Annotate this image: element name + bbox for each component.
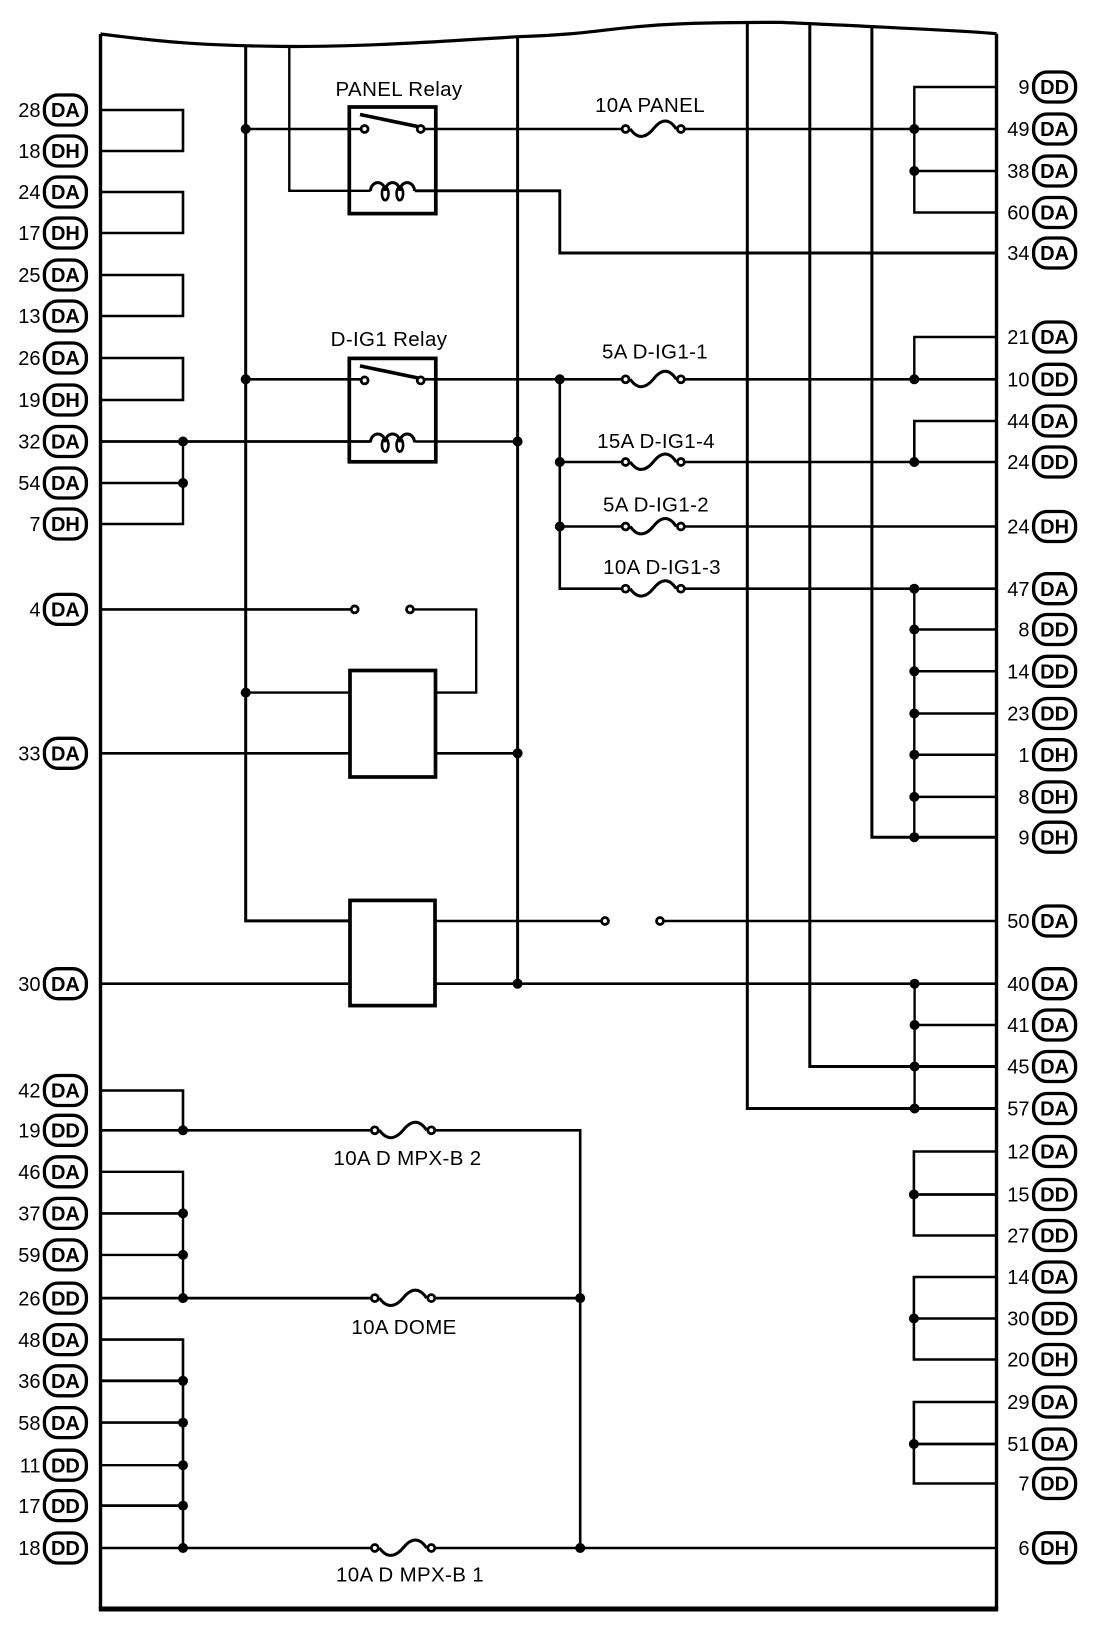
- wire pin 58 DA stub: [101, 1421, 184, 1424]
- wire pins 25/13 bracket: [101, 275, 184, 316]
- svg-text:DA: DA: [51, 600, 80, 622]
- wire fuse 10A D MPX-B 1 to pin 6 DH: [436, 1547, 997, 1550]
- wire pins 26/19 bracket: [101, 358, 184, 400]
- wire pin 36 DA stub: [101, 1379, 184, 1382]
- pin terminal 25 DA: [18, 260, 86, 290]
- node 17 DD bracket: [178, 1501, 188, 1511]
- node 8 DH: [909, 792, 919, 802]
- svg-text:36: 36: [18, 1371, 40, 1393]
- svg-text:57: 57: [1007, 1099, 1029, 1121]
- svg-text:33: 33: [18, 744, 40, 766]
- svg-text:DD: DD: [1040, 704, 1069, 726]
- node 14 DD: [909, 666, 919, 676]
- wire pins 7 DH stub joining 32 DA: [101, 442, 184, 525]
- svg-text:10A DOME: 10A DOME: [351, 1316, 456, 1339]
- wire pins 24/17 bracket: [101, 192, 184, 233]
- wire pin 23 DD stub: [914, 712, 996, 715]
- node 10 DD: [909, 374, 919, 384]
- svg-text:DA: DA: [1040, 1142, 1069, 1164]
- svg-text:60: 60: [1007, 203, 1029, 225]
- wire bus D from top edge down then right to pin 57 DA: [747, 23, 996, 1109]
- svg-text:8: 8: [1018, 620, 1029, 642]
- node 32 DA bracket: [178, 437, 188, 447]
- svg-text:59: 59: [18, 1245, 40, 1267]
- fuse 10A D MPX-B 2 (F6): [333, 1122, 481, 1170]
- node 26 DD bracket: [178, 1293, 188, 1303]
- node 58 DA bracket: [178, 1418, 188, 1428]
- svg-text:18: 18: [18, 1538, 40, 1560]
- wire bus A from top edge down to component box 2: [246, 45, 350, 921]
- svg-text:DD: DD: [51, 1455, 80, 1477]
- svg-text:11: 11: [20, 1455, 41, 1477]
- node 38 DA: [909, 166, 919, 176]
- pin terminal 14 DD: [1007, 656, 1075, 686]
- svg-text:DA: DA: [1040, 1434, 1069, 1456]
- svg-text:DH: DH: [51, 390, 80, 412]
- svg-text:DA: DA: [51, 1204, 80, 1226]
- pin terminal 7 DH: [29, 509, 86, 539]
- svg-text:10A PANEL: 10A PANEL: [595, 94, 705, 117]
- wire feeder from node on 5A D-IG1-1 wire down to fuse 10A D-IG1-3: [560, 379, 622, 588]
- node 15 DD: [909, 1190, 919, 1200]
- wire bus C from top edge down to node at wire 40 DA: [516, 37, 519, 984]
- pin terminal 51 DA: [1007, 1429, 1075, 1459]
- svg-text:DD: DD: [1040, 620, 1069, 642]
- wire pin 30 DD stub: [914, 1317, 997, 1319]
- wire bus A tap to component box 1 left terminal: [246, 691, 350, 693]
- pin terminal 54 DA: [18, 468, 86, 498]
- svg-text:DD: DD: [51, 1538, 80, 1560]
- svg-text:DA: DA: [1040, 1267, 1069, 1289]
- svg-text:27: 27: [1007, 1226, 1029, 1248]
- pin terminal 17 DD: [18, 1491, 86, 1521]
- wire fuse 10A PANEL to pin 49 DA: [685, 128, 996, 131]
- svg-text:DA: DA: [1040, 243, 1069, 265]
- svg-text:DH: DH: [51, 223, 80, 245]
- pin terminal 37 DA: [18, 1198, 86, 1228]
- svg-text:24: 24: [1007, 517, 1029, 539]
- node bus A / D-IG1 relay: [241, 374, 251, 384]
- wire pin 17 DD stub: [101, 1504, 184, 1507]
- wire fuse 15A D-IG1-4 feed: [560, 461, 622, 464]
- pin terminal 9 DH: [1018, 822, 1075, 852]
- pin terminal 21 DA: [1007, 322, 1075, 352]
- node 57 DA: [910, 1104, 920, 1114]
- node 59 DA bracket: [178, 1250, 188, 1260]
- junction block outer border (left, bottom, right): [99, 34, 102, 1609]
- svg-text:13: 13: [18, 306, 40, 328]
- svg-text:9: 9: [1018, 827, 1029, 849]
- svg-text:45: 45: [1007, 1057, 1029, 1079]
- pin terminal 26 DD: [18, 1283, 86, 1313]
- svg-text:DA: DA: [1040, 411, 1069, 433]
- pin terminal 17 DH: [18, 218, 86, 248]
- svg-text:DA: DA: [51, 1081, 80, 1103]
- svg-text:14: 14: [1007, 1267, 1029, 1289]
- pin terminal 29 DA: [1007, 1387, 1075, 1417]
- wire pin 8 DD stub: [914, 628, 996, 631]
- pin terminal 36 DA: [18, 1366, 86, 1396]
- pin terminal 32 DA: [18, 427, 86, 457]
- node 24 DD: [909, 457, 919, 467]
- wire pin 19 DD to fuse 10A D MPX-B 2: [101, 1129, 371, 1132]
- svg-text:DA: DA: [1040, 327, 1069, 349]
- wire fuse 10A D-IG1-3 to pin 47 DA: [685, 587, 996, 590]
- wire PANEL relay input from bus A: [246, 128, 361, 131]
- node bus C / box1: [513, 748, 523, 758]
- pin terminal 9 DD: [1018, 72, 1075, 102]
- node bus A / PANEL relay: [241, 124, 251, 134]
- wire pins 29 DA / 51 DA / 7 DD bracket: [914, 1402, 997, 1484]
- wire pin 30 DA to component box 2: [101, 982, 351, 985]
- svg-text:DA: DA: [1040, 579, 1069, 601]
- svg-text:38: 38: [1007, 161, 1029, 183]
- svg-text:DD: DD: [1040, 1226, 1069, 1248]
- svg-text:D-IG1 Relay: D-IG1 Relay: [331, 328, 448, 351]
- pin terminal 33 DA: [18, 738, 86, 768]
- fuse 10A D-IG1-3 (F5): [603, 556, 721, 596]
- pin terminal 6 DH: [1018, 1533, 1075, 1563]
- svg-text:21: 21: [1007, 327, 1029, 349]
- svg-text:DA: DA: [1040, 974, 1069, 996]
- svg-text:29: 29: [1007, 1392, 1029, 1414]
- pin terminal 41 DA: [1007, 1010, 1075, 1040]
- svg-text:28: 28: [18, 100, 40, 122]
- wire bus E from top edge down then right to pin 45 DA: [810, 23, 997, 1067]
- svg-text:17: 17: [18, 1496, 40, 1518]
- svg-text:50: 50: [1007, 911, 1029, 933]
- node bus C / 40 DA: [513, 979, 523, 989]
- node 11 DD bracket: [178, 1460, 188, 1470]
- node bus C / coil D-IG1: [513, 437, 523, 447]
- wire pin 4 DA to switch S1: [101, 608, 351, 611]
- svg-text:DA: DA: [1040, 161, 1069, 183]
- svg-text:DD: DD: [51, 1121, 80, 1143]
- svg-text:DD: DD: [1040, 452, 1069, 474]
- component box 1 (unlabeled relay/breaker): [350, 671, 436, 778]
- wire D-IG1 relay coil wire from pin 32 DA: [101, 440, 371, 443]
- svg-text:7: 7: [29, 514, 40, 536]
- svg-text:18: 18: [18, 141, 40, 163]
- svg-text:19: 19: [18, 390, 40, 412]
- pin terminal 14 DA: [1007, 1262, 1075, 1292]
- svg-text:15A D-IG1-4: 15A D-IG1-4: [597, 430, 715, 453]
- svg-text:25: 25: [18, 265, 40, 287]
- pin terminal 57 DA: [1007, 1094, 1075, 1124]
- pin terminal 1 DH: [1018, 740, 1075, 770]
- pin terminal 19 DH: [18, 385, 86, 415]
- node 40 DA: [910, 979, 920, 989]
- svg-text:34: 34: [1007, 243, 1029, 265]
- pin terminal 20 DH: [1007, 1345, 1075, 1375]
- svg-text:41: 41: [1007, 1015, 1029, 1037]
- svg-text:PANEL Relay: PANEL Relay: [336, 78, 463, 101]
- wire pin 9 DD bracket down to 60 DA: [914, 87, 996, 213]
- wire fuse 5A D-IG1-2 feed: [560, 525, 622, 528]
- fuse 5A D-IG1-2 (F4): [603, 494, 709, 534]
- component box 2 (unlabeled relay/breaker): [350, 900, 435, 1005]
- svg-text:10A D MPX-B 2: 10A D MPX-B 2: [333, 1147, 481, 1170]
- svg-text:51: 51: [1007, 1434, 1029, 1456]
- svg-text:17: 17: [18, 223, 40, 245]
- wire switch S1 to component box 1 right terminal: [414, 609, 476, 692]
- svg-text:DA: DA: [1040, 911, 1069, 933]
- node feeder / 5A D-IG1-1: [555, 374, 565, 384]
- svg-text:14: 14: [1007, 662, 1029, 684]
- pin terminal 15 DD: [1007, 1180, 1075, 1210]
- svg-text:DA: DA: [51, 1162, 80, 1184]
- pin terminal 8 DD: [1018, 615, 1075, 645]
- svg-text:24: 24: [1007, 452, 1029, 474]
- svg-text:1: 1: [1018, 745, 1029, 767]
- wire pin 54 DA stub: [101, 482, 184, 484]
- wire pin 15 DD stub: [914, 1193, 997, 1196]
- wire switch S2 to pin 50 DA: [665, 920, 997, 922]
- wire pin 41 DA stub: [915, 1024, 997, 1026]
- wire pin 59 DA stub: [101, 1254, 184, 1256]
- fuse 15A D-IG1-4 (F3): [597, 430, 715, 469]
- svg-text:DH: DH: [1040, 1350, 1069, 1372]
- pin terminal 30 DD: [1007, 1304, 1075, 1334]
- svg-text:DA: DA: [51, 1413, 80, 1435]
- fuse 10A PANEL (F1): [595, 94, 705, 136]
- wire bus B from top edge to PANEL relay coil: [289, 46, 370, 191]
- svg-text:58: 58: [18, 1413, 40, 1435]
- svg-text:46: 46: [18, 1162, 40, 1184]
- wire fuse 10A DOME to vertical H: [436, 1297, 580, 1300]
- wire pin 51 DA stub: [914, 1443, 997, 1446]
- svg-text:19: 19: [18, 1121, 40, 1143]
- svg-text:DA: DA: [51, 1330, 80, 1352]
- pin terminal 19 DD: [18, 1115, 86, 1145]
- node 49 DA: [909, 124, 919, 134]
- svg-text:15: 15: [1007, 1185, 1029, 1207]
- svg-text:9: 9: [1018, 77, 1029, 99]
- svg-text:DH: DH: [1040, 827, 1069, 849]
- svg-text:DD: DD: [51, 1288, 80, 1310]
- node 9 DH: [909, 832, 919, 842]
- wire pin 46 DA stub: [101, 1172, 184, 1298]
- svg-text:DH: DH: [1040, 1538, 1069, 1560]
- pin terminal 18 DD: [18, 1533, 86, 1563]
- node 47 DA: [909, 584, 919, 594]
- pin terminal 34 DA: [1007, 238, 1075, 268]
- wire pins 12 DA / 15 DD / 27 DD bracket: [914, 1152, 997, 1236]
- node 51 DA: [909, 1439, 919, 1449]
- svg-text:DA: DA: [1040, 1392, 1069, 1414]
- pin terminal 48 DA: [18, 1325, 86, 1355]
- svg-text:30: 30: [1007, 1309, 1029, 1331]
- wire pins 40-57 DA bracket: [913, 984, 915, 1109]
- svg-text:DA: DA: [51, 348, 80, 370]
- wire pins 28/18 bracket: [101, 110, 184, 151]
- pin terminal 30 DA: [18, 969, 86, 999]
- pin terminal 13 DA: [18, 301, 86, 331]
- svg-text:30: 30: [18, 974, 40, 996]
- wire pin 33 DA to component box 1: [101, 752, 351, 755]
- wire pin 38 DA stub: [914, 170, 996, 173]
- svg-text:DH: DH: [1040, 787, 1069, 809]
- wire component box 2 to switch S2: [435, 920, 601, 922]
- pin terminal 42 DA: [18, 1076, 86, 1106]
- node 1 DH: [909, 750, 919, 760]
- wire pins 14 DA / 30 DD / 20 DH bracket: [914, 1277, 997, 1360]
- svg-text:10A D-IG1-3: 10A D-IG1-3: [603, 556, 721, 579]
- relay D-IG1 Relay (U2): [331, 328, 448, 462]
- wire pin 26 DD to fuse 10A DOME: [101, 1297, 371, 1300]
- pin terminal 26 DA: [18, 343, 86, 373]
- wire right bracket 47 DA to 9 DH: [913, 589, 915, 838]
- svg-text:DH: DH: [51, 514, 80, 536]
- svg-text:DA: DA: [51, 432, 80, 454]
- pin terminal 7 DD: [1018, 1469, 1075, 1499]
- wire D-IG1 relay input from bus A: [246, 378, 361, 381]
- svg-text:DA: DA: [51, 1371, 80, 1393]
- node feeder / 15A D-IG1-4: [555, 457, 565, 467]
- svg-text:DD: DD: [1040, 370, 1069, 392]
- pin terminal 24 DD: [1007, 447, 1075, 477]
- pin terminal 12 DA: [1007, 1137, 1075, 1167]
- wire component box 2 to pin 40 DA: [435, 982, 997, 985]
- pin terminal 47 DA: [1007, 574, 1075, 604]
- svg-text:23: 23: [1007, 704, 1029, 726]
- pin terminal 40 DA: [1007, 969, 1075, 999]
- wire pin 37 DA stub: [101, 1212, 184, 1215]
- svg-text:DH: DH: [1040, 517, 1069, 539]
- svg-text:DA: DA: [51, 1245, 80, 1267]
- pin terminal 44 DA: [1007, 406, 1075, 436]
- wire D-IG1 relay coil to bus C: [415, 440, 518, 443]
- wire bus F from top edge down then right to pin 9 DH: [872, 27, 997, 838]
- pin terminal 23 DD: [1007, 699, 1075, 729]
- svg-text:DA: DA: [1040, 1015, 1069, 1037]
- pin terminal 49 DA: [1007, 114, 1075, 144]
- pin terminal 4 DA: [29, 594, 86, 624]
- svg-text:44: 44: [1007, 411, 1029, 433]
- svg-text:8: 8: [1018, 787, 1029, 809]
- wire PANEL relay coil to pin 34 DA: [415, 191, 997, 253]
- svg-text:54: 54: [18, 473, 40, 495]
- pin terminal 10 DD: [1007, 364, 1075, 394]
- node vertical H / 18 DD: [575, 1543, 585, 1553]
- wire pin 1 DH stub: [914, 753, 996, 756]
- node 36 DA bracket: [178, 1376, 188, 1386]
- pin terminal 60 DA: [1007, 198, 1075, 228]
- pin terminal 28 DA: [18, 95, 86, 125]
- pin terminal 18 DH: [18, 136, 86, 166]
- node bus A / box1: [241, 688, 251, 698]
- node 23 DD: [909, 709, 919, 719]
- svg-text:10A D MPX-B 1: 10A D MPX-B 1: [336, 1564, 484, 1587]
- svg-text:47: 47: [1007, 579, 1029, 601]
- fuse 10A DOME (F7): [351, 1290, 456, 1339]
- svg-text:DA: DA: [51, 974, 80, 996]
- switch S2 contacts: [602, 918, 664, 925]
- wire pin 14 DD stub: [914, 670, 996, 673]
- svg-text:5A D-IG1-2: 5A D-IG1-2: [603, 494, 709, 517]
- fuse 10A D MPX-B 1 (F8): [336, 1540, 484, 1587]
- node 45 DA: [910, 1062, 920, 1072]
- pin terminal 45 DA: [1007, 1052, 1075, 1082]
- pin terminal 59 DA: [18, 1240, 86, 1270]
- svg-text:10: 10: [1007, 370, 1029, 392]
- switch S1 contacts: [351, 606, 413, 613]
- svg-text:DD: DD: [1040, 662, 1069, 684]
- svg-text:DD: DD: [51, 1496, 80, 1518]
- pin terminal 50 DA: [1007, 906, 1075, 936]
- wire D-IG1 relay output to fuse 5A D-IG1-1: [424, 378, 621, 381]
- wire fuse 5A D-IG1-1 to pin 10 DD: [685, 378, 996, 381]
- svg-text:7: 7: [1018, 1474, 1029, 1496]
- svg-text:DD: DD: [1040, 1474, 1069, 1496]
- svg-text:24: 24: [18, 182, 40, 204]
- svg-text:5A D-IG1-1: 5A D-IG1-1: [602, 341, 708, 364]
- pin terminal 27 DD: [1007, 1221, 1075, 1251]
- svg-text:DA: DA: [1040, 1099, 1069, 1121]
- svg-text:DD: DD: [1040, 77, 1069, 99]
- node 19 DD bracket: [178, 1125, 188, 1135]
- svg-text:4: 4: [29, 600, 40, 622]
- relay PANEL Relay (U1): [336, 78, 463, 214]
- node 30 DD: [909, 1314, 919, 1324]
- svg-text:49: 49: [1007, 119, 1029, 141]
- wire PANEL relay output to fuse 10A PANEL: [424, 128, 621, 131]
- pin terminal 58 DA: [18, 1408, 86, 1438]
- node feeder / 5A D-IG1-2: [555, 522, 565, 532]
- svg-text:12: 12: [1007, 1142, 1029, 1164]
- wire pin 11 DD stub: [101, 1464, 184, 1466]
- wire fuse 5A D-IG1-2 to pin 24 DH: [685, 525, 996, 527]
- wire pin 48 DA stub: [101, 1340, 184, 1548]
- node 37 DA bracket: [178, 1208, 188, 1218]
- svg-text:DA: DA: [51, 306, 80, 328]
- pin terminal 8 DH: [1018, 782, 1075, 812]
- svg-text:48: 48: [18, 1330, 40, 1352]
- wire pin 18 DD to fuse 10A D MPX-B 1: [101, 1547, 371, 1550]
- svg-text:DD: DD: [1040, 1185, 1069, 1207]
- junction block torn-off wavy top edge: [101, 22, 997, 46]
- svg-text:DA: DA: [1040, 203, 1069, 225]
- svg-text:6: 6: [1018, 1538, 1029, 1560]
- pin terminal 46 DA: [18, 1157, 86, 1187]
- svg-text:40: 40: [1007, 974, 1029, 996]
- wire fuse 15A D-IG1-4 to pin 24 DD: [685, 461, 996, 464]
- wire pin 44 DA bracket: [914, 421, 996, 462]
- node vertical H / 26 DD: [575, 1293, 585, 1303]
- svg-text:20: 20: [1007, 1350, 1029, 1372]
- svg-text:32: 32: [18, 432, 40, 454]
- svg-text:26: 26: [18, 348, 40, 370]
- pin terminal 38 DA: [1007, 156, 1075, 186]
- wire component box 1 to bus C: [434, 752, 517, 755]
- wire pin 8 DH stub: [914, 796, 996, 799]
- svg-text:DA: DA: [1040, 1057, 1069, 1079]
- wire pin 42 DA stub: [101, 1091, 184, 1131]
- svg-text:DA: DA: [51, 473, 80, 495]
- pin terminal 24 DH: [1007, 512, 1075, 542]
- wire pin 21 DA bracket: [914, 337, 996, 379]
- svg-text:DA: DA: [51, 744, 80, 766]
- svg-text:DH: DH: [1040, 745, 1069, 767]
- fuse 5A D-IG1-1 (F2): [602, 341, 708, 387]
- svg-text:DA: DA: [51, 182, 80, 204]
- wire fuse 10A D MPX-B 2 to vertical H: [436, 1130, 580, 1548]
- node 8 DD: [909, 625, 919, 635]
- svg-text:26: 26: [18, 1288, 40, 1310]
- node 18 DD bracket: [178, 1543, 188, 1553]
- svg-text:DD: DD: [1040, 1309, 1069, 1331]
- svg-text:DA: DA: [1040, 119, 1069, 141]
